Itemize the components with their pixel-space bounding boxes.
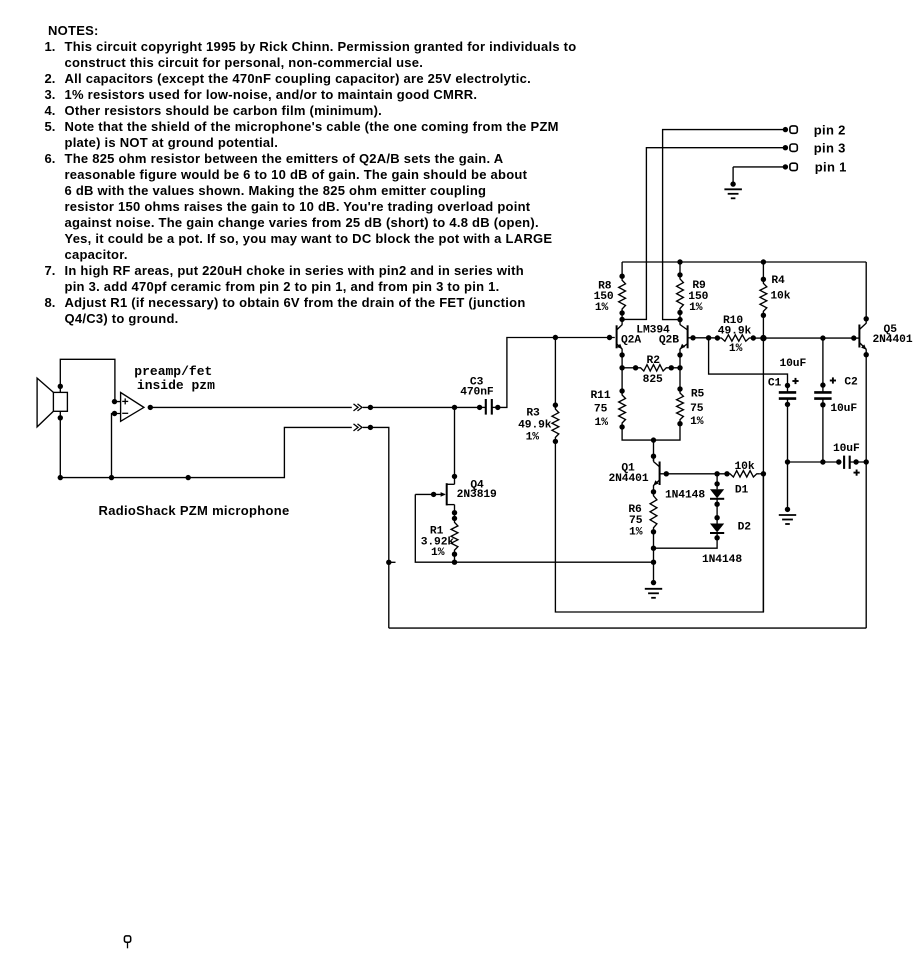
svg-text:R11: R11 xyxy=(590,390,610,402)
wire op-amp - input to ground rail xyxy=(109,411,121,481)
svg-text:1%: 1% xyxy=(629,527,643,539)
cable marker chevrons on signal wire xyxy=(354,404,363,411)
svg-text:1%: 1% xyxy=(595,417,609,429)
wire bottom rail (shield/output return) xyxy=(389,627,866,629)
label RadioShack PZM microphone xyxy=(99,503,290,518)
svg-text:2N4401: 2N4401 xyxy=(872,334,912,346)
wire base line from feedback node to Q5 xyxy=(763,335,853,340)
svg-text:R6: R6 xyxy=(628,504,642,516)
wire pin1 to ground xyxy=(730,164,788,187)
label D2 / 1N4148 xyxy=(702,521,751,566)
resistor R8 150 1% xyxy=(619,262,626,319)
svg-text:49.9k: 49.9k xyxy=(718,325,752,337)
svg-text:inside pzm: inside pzm xyxy=(137,378,215,393)
svg-text:75: 75 xyxy=(690,403,704,415)
speaker element of PZM microphone xyxy=(37,378,67,427)
svg-text:C2: C2 xyxy=(844,377,858,389)
wire R4 node down to 10k resistor and rail xyxy=(761,338,766,612)
svg-text:preamp/fet: preamp/fet xyxy=(134,364,212,379)
label 10k xyxy=(734,461,754,473)
svg-text:75: 75 xyxy=(629,515,643,527)
svg-text:pin 2: pin 2 xyxy=(814,122,846,137)
transistor Q2B (half of LM394) xyxy=(677,320,687,358)
svg-text:10uF: 10uF xyxy=(833,443,860,455)
svg-text:D2: D2 xyxy=(738,521,752,533)
label pin 2 xyxy=(814,122,846,137)
svg-text:10k: 10k xyxy=(770,291,790,303)
resistor 10k (bias) xyxy=(727,471,763,477)
label C2 + 10uF xyxy=(830,377,858,416)
svg-text:1%: 1% xyxy=(526,432,540,444)
resistor R1 3.92k 1% xyxy=(451,518,458,557)
terminal pin 3 xyxy=(790,144,797,151)
terminal pin 1 xyxy=(790,163,797,170)
resistor R10 49.9k 1% (feedback) xyxy=(709,335,764,341)
svg-text:Q2A: Q2A xyxy=(621,335,641,347)
wire shield into board, down to bottom rail xyxy=(363,425,396,628)
resistor R5 75 1% xyxy=(677,368,684,427)
svg-text:1N4148: 1N4148 xyxy=(702,554,742,566)
label R1 3.92k 1% xyxy=(421,526,455,559)
resistor R6 75 1% xyxy=(650,489,657,583)
diode D1 1N4148 xyxy=(710,489,724,507)
wire Q1 base to diode/10k node xyxy=(666,471,729,476)
label Q4 2N3819 xyxy=(457,479,497,501)
op-amp U1 (preamp inside PZM) xyxy=(121,393,144,422)
label pin 1 xyxy=(815,160,847,175)
svg-text:470nF: 470nF xyxy=(460,387,494,399)
node R6 bottom junctions xyxy=(651,546,656,586)
label 1N4148 (D1) xyxy=(665,485,749,502)
svg-text:1%: 1% xyxy=(595,302,609,314)
capacitor C1 10uF xyxy=(779,386,796,408)
resistor R3 49.9k 1% xyxy=(552,338,559,445)
wire pin3 line down to Q2A collector xyxy=(619,145,788,322)
terminal pin 2 xyxy=(790,126,797,133)
wire mic bottom terminal down to ground rail xyxy=(58,411,63,480)
svg-text:R4: R4 xyxy=(771,275,785,287)
transistor Q5 2N4401 (output) xyxy=(851,316,869,357)
capacitor 10uF (output coupling) xyxy=(844,456,866,469)
label R4 10k xyxy=(770,275,790,303)
label LM394 Q2A Q2B xyxy=(621,324,679,346)
svg-text:Q2B: Q2B xyxy=(659,335,679,347)
svg-text:75: 75 xyxy=(594,404,608,416)
label R5 75 1% xyxy=(690,388,704,428)
svg-text:1%: 1% xyxy=(689,302,703,314)
svg-text:pin 3: pin 3 xyxy=(814,140,846,155)
label Q5 2N4401 xyxy=(872,324,912,346)
label 10uF + (output cap) xyxy=(833,443,860,476)
label R10 49.9k 1% xyxy=(718,315,752,355)
transistor Q2A (half of LM394) xyxy=(617,319,625,357)
svg-text:825: 825 xyxy=(643,374,663,386)
wire R3 bottom to feedback rail xyxy=(555,441,763,612)
capacitor C3 470nF xyxy=(477,399,501,415)
svg-text:1%: 1% xyxy=(431,547,445,559)
label C3 470nF xyxy=(460,376,494,398)
transistor Q1 2N4401 xyxy=(653,456,669,492)
svg-text:2N3819: 2N3819 xyxy=(457,489,497,501)
wire mic ground rail to cable xyxy=(60,427,352,480)
notes text block xyxy=(45,23,645,327)
ground below C1 xyxy=(779,515,796,524)
svg-text:2N4401: 2N4401 xyxy=(608,473,648,485)
stray terminal symbol at page bottom xyxy=(124,936,130,948)
svg-text:10uF: 10uF xyxy=(779,358,806,370)
ground below Q1 emitter circuit xyxy=(645,589,662,598)
svg-text:49.9k: 49.9k xyxy=(518,419,552,431)
label preamp/fet inside pzm xyxy=(134,364,215,393)
wire Q5 collector to top rail xyxy=(865,262,867,319)
resistor R4 10k xyxy=(760,262,767,338)
capacitor C2 10uF xyxy=(814,392,831,407)
wire C2 top from base line xyxy=(820,338,825,392)
label pin 3 xyxy=(814,140,846,155)
resistor R9 150 1% xyxy=(677,262,684,320)
wire Q4 source to R1 xyxy=(452,505,457,522)
diode D2 1N4148 xyxy=(710,524,724,541)
svg-text:R3: R3 xyxy=(526,407,540,419)
wire Q2B base to R10 node xyxy=(688,335,712,340)
wire R11/R5 bottoms join to Q1 collector xyxy=(622,424,680,461)
svg-text:10k: 10k xyxy=(734,461,754,473)
resistor R11 75 1% xyxy=(619,368,626,430)
wire Q4 gate loop to R1 bottom and ground node xyxy=(415,494,653,565)
svg-text:RadioShack PZM microphone: RadioShack PZM microphone xyxy=(99,503,290,518)
label R6 75 1% xyxy=(628,504,642,539)
svg-text:R2: R2 xyxy=(647,355,661,367)
wire mic top terminal to op-amp + input xyxy=(58,359,121,404)
svg-text:1%: 1% xyxy=(690,416,704,428)
label R11 75 1% xyxy=(590,390,610,429)
wire feedback node down to C1 top xyxy=(709,338,791,388)
svg-text:C1: C1 xyxy=(768,378,782,390)
ground at pin 1 xyxy=(724,189,742,198)
svg-text:pin 1: pin 1 xyxy=(815,160,847,175)
wire D2 bottom to R6 bottom node xyxy=(654,533,718,548)
label C1 + 10uF xyxy=(768,358,807,390)
svg-text:10uF: 10uF xyxy=(830,403,857,415)
wire D1 to D2 xyxy=(714,499,719,524)
wire Q4 drain tap from signal wire xyxy=(452,407,457,484)
wire signal into preamp board (to C3) xyxy=(363,405,480,410)
label R3 49.9k 1% xyxy=(518,407,552,443)
wire pin2 line down to Q2B collector xyxy=(663,127,789,322)
label Q1 2N4401 xyxy=(608,463,648,486)
svg-text:1N4148: 1N4148 xyxy=(665,489,705,501)
label R2 825 xyxy=(643,355,663,386)
svg-text:D1: D1 xyxy=(735,485,749,497)
wire C1/C2 bottoms to output node xyxy=(785,404,842,512)
wire op-amp output to cable xyxy=(148,405,352,410)
cable marker chevrons on shield wire xyxy=(354,424,363,431)
transistor Q4 2N3819 (JFET) xyxy=(415,483,454,505)
label R8 150 1% xyxy=(594,280,614,313)
label R9 150 1% xyxy=(688,280,708,314)
node feedback junction on R4 line xyxy=(760,335,766,341)
wire Q5 emitter down to output cap node xyxy=(864,355,869,628)
wire V+ top rail xyxy=(622,259,866,264)
svg-text:1%: 1% xyxy=(729,343,743,355)
resistor R2 825 (emitter coupling) xyxy=(619,355,682,371)
svg-text:R5: R5 xyxy=(691,388,705,400)
wire C3 to Q2A base xyxy=(498,335,615,408)
wire 10k/base node down to D1 xyxy=(714,474,719,490)
